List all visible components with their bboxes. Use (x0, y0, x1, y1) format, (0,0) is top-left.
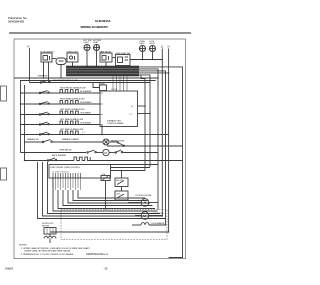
header publication number (8, 16, 28, 24)
TOD box (101, 176, 110, 181)
svg-text:RF ELEMENT: RF ELEMENT (80, 91, 92, 93)
surface unit row 4 (21, 114, 101, 116)
oven light box (116, 55, 131, 66)
bus band (bundled supply wires) (66, 66, 139, 77)
wire left vertical B (24, 85, 26, 161)
wire column 150 drop (149, 114, 151, 168)
svg-text:WARMER ELEMENT: WARMER ELEMENT (62, 138, 80, 141)
bus branch to board pin N (141, 75, 145, 106)
svg-text:LEFT REAR SURFACE UNIT: LEFT REAR SURFACE UNIT (60, 118, 84, 121)
wire L1 drop (161, 49, 163, 161)
wire bottom row (50, 231, 169, 233)
svg-text:5995384455: 5995384455 (8, 20, 24, 24)
nested corner wire 9 (78, 190, 145, 198)
bake switch diagonal (117, 142, 119, 144)
wire K3 to K4 (112, 57, 116, 59)
surface unit control board box (100, 91, 138, 127)
svg-text:316257913 Rev. A: 316257913 Rev. A (86, 252, 108, 256)
wire neutral drop (29, 48, 31, 83)
electronic oven control box (49, 165, 111, 179)
relay box K3 (100, 53, 112, 62)
svg-text:N: N (28, 45, 30, 49)
fan row switch 2 (115, 152, 117, 154)
svg-text:1. UPPER CASE LETTERS IN ( ): 1. UPPER CASE LETTERS IN ( ) INDICATE CO… (21, 247, 90, 250)
header model number (95, 19, 111, 23)
bus staircase wire 1 (139, 67, 183, 258)
notes text (19, 245, 90, 256)
nested corner wire 1 (38, 162, 166, 219)
element row 6 (long) (21, 134, 169, 136)
warmer row (25, 141, 43, 143)
svg-text:LEFT REAR SURFACE UNIT: LEFT REAR SURFACE UNIT (60, 128, 84, 131)
wire left vertical A (20, 81, 22, 153)
svg-text:OVEN LIGHT SW: OVEN LIGHT SW (115, 53, 130, 55)
svg-text:LIGHT: LIGHT (149, 43, 155, 45)
svg-text:BROIL ELEMENT: BROIL ELEMENT (52, 155, 67, 157)
bus staircase wire 5 (139, 75, 150, 114)
indicator lamp L2b (150, 46, 156, 52)
bus staircase wire 2 (139, 69, 158, 209)
svg-text:RR ELEMENT: RR ELEMENT (80, 102, 92, 104)
left margin tab 2 (1, 168, 7, 180)
wire K3 drop (105, 62, 107, 66)
svg-text:1 2 3 4 5: 1 2 3 4 5 (111, 89, 117, 91)
svg-text:NOTES:: NOTES: (19, 245, 28, 247)
lock motor label (135, 195, 151, 197)
switch row 1 (30, 82, 94, 84)
svg-text:2. REFERENCE NO. 17-20 IS 97: 2. REFERENCE NO. 17-20 IS 97 SUFFIX OF 3… (21, 254, 74, 256)
wire lamp A drop (86, 51, 88, 66)
header rule (9, 32, 191, 34)
svg-text:UNLOCK: UNLOCK (116, 180, 124, 182)
wire board bottom drop (101, 127, 103, 135)
svg-text:ELECTRONIC OVEN CONTROL: ELECTRONIC OVEN CONTROL (51, 167, 81, 169)
schematic frame (14, 39, 186, 259)
svg-text:LIGHT: LIGHT (93, 42, 99, 44)
board pin L1 (138, 113, 151, 115)
board left pin ticks (100, 93, 103, 125)
nested corner wire 2 (43, 162, 163, 216)
surface unit row 3 (21, 103, 101, 105)
EOC pin drops (dense) (53, 178, 81, 190)
wire K1 drop a (43, 62, 45, 78)
nested corner wire 3 (48, 162, 161, 214)
relay box K2 (67, 53, 78, 62)
wire lamp B drop (96, 51, 98, 66)
surface unit row 2 (21, 92, 101, 94)
board pin N (138, 105, 146, 107)
wire lamp C drop (142, 52, 144, 60)
thermal limiter box (100, 85, 107, 91)
wire column mid (161, 161, 163, 217)
mid right rail (107, 145, 183, 147)
svg-text:SH603: SH603 (5, 267, 13, 271)
footer page number (104, 267, 109, 271)
svg-text:MOTOR: MOTOR (42, 225, 50, 227)
wire bus feeder row 1 (14, 77, 158, 79)
drawing number (86, 252, 108, 256)
svg-text:LEFT FRONT SURFACE UNIT: LEFT FRONT SURFACE UNIT (60, 108, 86, 111)
wire box to right (130, 59, 162, 61)
header title WIRING SCHEMATIC (81, 25, 109, 29)
lock indicator circle (141, 199, 149, 207)
svg-text:-13-: -13- (104, 267, 109, 271)
door lock switch box upper (115, 178, 128, 187)
svg-text:OVEN FAN SW: OVEN FAN SW (59, 148, 72, 151)
node N label (168, 45, 170, 48)
wire N drop (168, 49, 170, 233)
nested corner wire 6 (63, 190, 153, 206)
wire K1 drop b (48, 62, 50, 83)
fan row (21, 152, 87, 154)
door lock motor box (44, 228, 56, 235)
fan motor (103, 149, 109, 155)
svg-text:CONTROL BOARD: CONTROL BOARD (107, 122, 124, 125)
left margin tab 1 (1, 86, 7, 101)
svg-text:OVEN LIGHT: OVEN LIGHT (67, 51, 79, 53)
nested corner wire 5 (58, 190, 155, 209)
svg-text:RIGHT FRONT SURFACE UNIT: RIGHT FRONT SURFACE UNIT (60, 87, 87, 90)
svg-text:LIMITER: LIMITER (98, 83, 105, 85)
svg-text:RIGHT REAR SURFACE UNIT: RIGHT REAR SURFACE UNIT (53, 79, 79, 82)
oven vent stadium (56, 58, 66, 65)
bus staircase wire 3 (139, 71, 166, 225)
indicator lamp L1b (140, 46, 146, 52)
wire lamp D drop (152, 52, 154, 60)
svg-text:LOCK MOTOR SW: LOCK MOTOR SW (135, 195, 151, 197)
svg-text:THERM SW: THERM SW (38, 75, 48, 77)
wire winding drop (49, 239, 51, 244)
lock switch box (115, 191, 128, 200)
wire K2 drop (72, 62, 74, 66)
wire box1 to stadium (52, 58, 56, 60)
relay box K1 (41, 53, 52, 62)
svg-text:WARMER SW: WARMER SW (27, 138, 39, 141)
lock heater coil (141, 223, 149, 225)
wire column 145 drop (144, 106, 146, 171)
warmer lamp (103, 139, 109, 145)
lock motor M (141, 212, 149, 220)
EOC right pin wires (111, 164, 159, 166)
svg-text:DOOR SWITCH: DOOR SWITCH (40, 51, 54, 53)
svg-text:LF ELEMENT: LF ELEMENT (80, 113, 92, 115)
node L1 label (161, 45, 164, 48)
door lock motor label (42, 223, 54, 227)
nested corner wire 7 (68, 190, 150, 203)
svg-text:LR ELEMENT: LR ELEMENT (80, 123, 92, 125)
broil row (25, 160, 75, 162)
nested corner wire 8 (73, 190, 148, 201)
indicator lamp L2a (94, 45, 100, 51)
wire stadium to box2 (66, 58, 67, 60)
wire stadium drop (60, 65, 62, 79)
indicator lamp L1a (84, 45, 90, 51)
svg-text:LIGHT: LIGHT (84, 42, 90, 44)
door lock motor winding (44, 236, 56, 238)
board top pin drops (113, 76, 127, 91)
svg-text:RIGHT REAR SURFACE UNIT: RIGHT REAR SURFACE UNIT (60, 98, 86, 101)
wire bus feeder row 2 (20, 80, 155, 82)
svg-text:LOCK HEATER: LOCK HEATER (151, 222, 165, 225)
nested corner wire 4 (53, 178, 158, 211)
svg-text:LIGHT: LIGHT (139, 43, 145, 45)
node N arrow (28, 45, 30, 49)
bus staircase wire 4 (139, 72, 169, 74)
footer left (5, 267, 13, 271)
svg-text:LOCK MOTOR: LOCK MOTOR (151, 213, 164, 215)
svg-text:GLEF384AS: GLEF384AS (95, 19, 111, 23)
surface unit row 5 (21, 124, 101, 126)
svg-text:LOWER CASE LETTERS INDICATE WI: LOWER CASE LETTERS INDICATE WIRE GAUGE. (24, 250, 71, 253)
lock assembly dashed box (61, 210, 167, 240)
svg-text:N: N (168, 45, 170, 48)
EOC terminal ticks (53, 173, 81, 178)
svg-text:BAKE RELAY: BAKE RELAY (100, 50, 112, 53)
svg-text:WIRING SCHEMATIC: WIRING SCHEMATIC (81, 25, 109, 29)
